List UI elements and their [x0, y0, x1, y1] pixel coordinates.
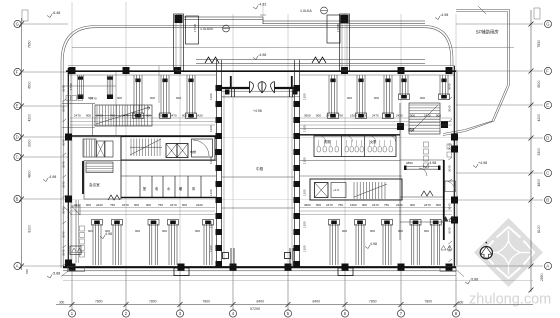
svg-text:900: 900 — [146, 114, 151, 118]
svg-text:B: B — [546, 198, 549, 203]
svg-text:3040: 3040 — [448, 143, 452, 150]
svg-text:900: 900 — [117, 96, 122, 100]
svg-text:1200: 1200 — [209, 221, 213, 228]
atrium bottom piers — [223, 248, 294, 267]
svg-text:900: 900 — [176, 96, 181, 100]
left canopy wall strip — [174, 14, 264, 71]
svg-text:4800: 4800 — [28, 170, 32, 178]
svg-text:2470: 2470 — [74, 203, 81, 207]
bottom exterior wall — [63, 267, 456, 271]
svg-text:A: A — [546, 264, 549, 269]
svg-text:-4.98: -4.98 — [428, 161, 436, 165]
svg-text:1200: 1200 — [209, 157, 213, 164]
svg-text:3040: 3040 — [448, 203, 452, 210]
core strip side texts — [209, 93, 307, 252]
svg-text:G: G — [16, 22, 19, 27]
atrium front wall with break marks — [196, 57, 425, 64]
svg-text:1.0LKA: 1.0LKA — [300, 9, 312, 13]
svg-text:D: D — [16, 135, 19, 140]
svg-text:3040: 3040 — [62, 249, 66, 256]
svg-text:F: F — [546, 69, 549, 74]
svg-text:-4.98: -4.98 — [440, 13, 448, 17]
left grid bubbles — [14, 20, 21, 269]
svg-text:2470: 2470 — [372, 114, 379, 118]
svg-text:2470: 2470 — [424, 114, 431, 118]
svg-text:4200: 4200 — [28, 114, 32, 122]
svg-text:900: 900 — [347, 96, 352, 100]
upper terrace line — [72, 47, 514, 49]
bottom-right corner detail — [440, 246, 464, 277]
main entrance doors — [222, 76, 300, 97]
site boundary right extension — [443, 6, 510, 136]
svg-text:-4.98: -4.98 — [48, 175, 56, 179]
svg-text:8100: 8100 — [28, 225, 32, 233]
interior dimension strings lower — [70, 203, 452, 233]
svg-text:900: 900 — [86, 203, 91, 207]
svg-text:900: 900 — [134, 203, 139, 207]
canopy shaft texts — [193, 24, 340, 32]
svg-text:D: D — [546, 136, 549, 141]
svg-text:3040: 3040 — [62, 105, 66, 112]
svg-text:3040: 3040 — [62, 85, 66, 92]
svg-text:7800: 7800 — [425, 300, 433, 304]
svg-text:1200: 1200 — [209, 189, 213, 196]
svg-text:900: 900 — [135, 229, 140, 233]
svg-text:900: 900 — [88, 96, 93, 100]
svg-text:3040: 3040 — [62, 231, 66, 238]
entrance porches bottom — [174, 268, 353, 276]
svg-text:F: F — [16, 70, 19, 75]
svg-text:A: A — [16, 264, 19, 269]
core left wall with columns — [216, 60, 225, 267]
svg-text:2470: 2470 — [122, 114, 129, 118]
svg-text:2420: 2420 — [396, 114, 403, 118]
svg-text:G: G — [546, 22, 549, 27]
svg-text:900: 900 — [424, 229, 429, 233]
svg-text:3040: 3040 — [448, 165, 452, 172]
svg-text:+4.98: +4.98 — [478, 161, 487, 165]
svg-text:900: 900 — [362, 114, 367, 118]
svg-text:900: 900 — [316, 203, 321, 207]
svg-text:2470: 2470 — [326, 114, 333, 118]
svg-text:750: 750 — [110, 114, 115, 118]
left wing ramp hatch — [86, 162, 113, 173]
svg-text:820: 820 — [25, 269, 29, 274]
svg-text:-5.88: -5.88 — [470, 278, 478, 282]
svg-text:900: 900 — [436, 114, 441, 118]
svg-text:2470: 2470 — [74, 114, 81, 118]
right wing upper partitions — [300, 103, 448, 136]
terrace edge below bottom wall — [62, 275, 456, 277]
svg-text:2420: 2420 — [96, 114, 103, 118]
svg-text:2470: 2470 — [372, 203, 379, 207]
svg-text:900: 900 — [420, 96, 425, 100]
svg-text:900: 900 — [410, 114, 415, 118]
svg-text:750: 750 — [338, 203, 343, 207]
svg-text:1200: 1200 — [303, 189, 307, 196]
svg-text:2420: 2420 — [396, 203, 403, 207]
svg-text:3040: 3040 — [62, 181, 66, 188]
svg-text:4500: 4500 — [537, 80, 541, 88]
svg-text:17600: 17600 — [336, 24, 340, 32]
svg-text:900: 900 — [398, 229, 403, 233]
bottom grid bubbles — [68, 310, 459, 317]
svg-text:7650: 7650 — [537, 40, 541, 48]
right wing toilet block — [300, 135, 400, 157]
elevation and room labels — [43, 3, 499, 285]
svg-text:2470: 2470 — [170, 114, 177, 118]
svg-text:2420: 2420 — [196, 114, 203, 118]
svg-text:3040: 3040 — [448, 105, 452, 112]
right wing stair — [409, 103, 440, 134]
svg-text:3040: 3040 — [62, 139, 66, 146]
svg-text:8100: 8100 — [537, 225, 541, 233]
svg-text:900: 900 — [146, 203, 151, 207]
svg-text:2470: 2470 — [170, 203, 177, 207]
svg-text:900: 900 — [374, 96, 379, 100]
left dimension texts — [28, 40, 32, 232]
svg-text:3040: 3040 — [62, 161, 66, 168]
svg-text:E: E — [546, 103, 549, 108]
svg-text:3600: 3600 — [304, 203, 311, 207]
watermark logo pinwheel — [474, 218, 543, 287]
svg-text:7800: 7800 — [203, 300, 211, 304]
svg-text:1200: 1200 — [303, 125, 307, 132]
svg-text:750: 750 — [384, 114, 389, 118]
svg-text:57290: 57290 — [250, 307, 260, 311]
svg-text:2420: 2420 — [196, 203, 203, 207]
right exterior wall — [454, 66, 457, 267]
svg-text:2470: 2470 — [424, 203, 431, 207]
left exterior wall — [68, 68, 71, 267]
svg-text:900: 900 — [195, 229, 200, 233]
svg-text:E: E — [16, 104, 19, 109]
svg-text:900: 900 — [370, 229, 375, 233]
right wing east rooms — [400, 136, 456, 240]
svg-text:会议室: 会议室 — [89, 182, 100, 187]
svg-text:7800: 7800 — [149, 300, 157, 304]
svg-text:7800: 7800 — [95, 300, 103, 304]
svg-text:1200: 1200 — [209, 93, 213, 100]
site boundary rounded outline — [61, 26, 453, 269]
svg-text:1.0L600: 1.0L600 — [200, 27, 213, 31]
svg-text:2850: 2850 — [540, 273, 544, 281]
right wing upper window stubs — [328, 75, 450, 119]
right wing lower window stubs — [329, 220, 442, 266]
right canopy wall strip — [263, 14, 425, 71]
svg-text:4.98: 4.98 — [105, 232, 112, 236]
svg-text:900: 900 — [150, 96, 155, 100]
svg-text:-5.88: -5.88 — [52, 272, 60, 276]
svg-text:2850: 2850 — [406, 161, 413, 165]
atrium interior lines — [222, 97, 294, 208]
interior dimension strings upper — [70, 96, 452, 125]
bottom dimension texts — [59, 300, 464, 311]
bottom-left corner detail — [25, 246, 85, 277]
svg-text:-4.33: -4.33 — [258, 3, 266, 7]
right grid bubbles — [544, 20, 551, 269]
svg-text:7650: 7650 — [28, 40, 32, 48]
svg-text:3300: 3300 — [537, 148, 541, 156]
svg-text:900: 900 — [362, 203, 367, 207]
svg-text:3040: 3040 — [448, 245, 452, 252]
north arrow compass — [480, 242, 492, 259]
svg-text:3600: 3600 — [304, 114, 311, 118]
left wing upper partitions — [62, 66, 159, 136]
left wall lower fixtures — [63, 200, 85, 263]
svg-text:1500: 1500 — [350, 114, 357, 118]
svg-text:1200: 1200 — [209, 245, 213, 252]
svg-text:3040: 3040 — [448, 227, 452, 234]
svg-text:2470: 2470 — [122, 203, 129, 207]
svg-text:4500: 4500 — [28, 81, 32, 89]
svg-text:1500: 1500 — [350, 203, 357, 207]
svg-text:750: 750 — [158, 203, 163, 207]
right core elevator and stair — [300, 161, 402, 201]
svg-text:3040: 3040 — [62, 207, 66, 214]
svg-text:男厕: 男厕 — [324, 139, 330, 144]
svg-text:-6.48: -6.48 — [52, 11, 60, 15]
svg-text:7800: 7800 — [369, 300, 377, 304]
row grid horizontal lines — [21, 24, 543, 266]
svg-text:电梯: 电梯 — [190, 149, 196, 154]
structural columns on exterior walls — [65, 67, 458, 271]
svg-text:4.98: 4.98 — [370, 242, 377, 246]
svg-text:1750: 1750 — [69, 83, 73, 90]
svg-text:17600: 17600 — [193, 24, 197, 32]
svg-text:900: 900 — [182, 114, 187, 118]
svg-text:zhulong.com: zhulong.com — [469, 292, 551, 308]
svg-text:1200: 1200 — [209, 125, 213, 132]
atrium top piers — [232, 87, 293, 97]
left core utility rooms — [121, 136, 216, 199]
svg-text:2470: 2470 — [326, 203, 333, 207]
column grid vertical lines — [72, 2, 456, 310]
svg-text:750: 750 — [158, 114, 163, 118]
svg-text:2420: 2420 — [96, 203, 103, 207]
left meeting room — [72, 161, 122, 216]
svg-text:300: 300 — [458, 301, 464, 305]
svg-text:C: C — [546, 171, 549, 176]
svg-text:300: 300 — [59, 301, 65, 305]
svg-text:中庭: 中庭 — [256, 166, 264, 171]
svg-text:1200: 1200 — [303, 157, 307, 164]
svg-text:3300: 3300 — [28, 139, 32, 147]
svg-text:8400: 8400 — [313, 300, 321, 304]
svg-text:900: 900 — [162, 229, 167, 233]
svg-text:750: 750 — [110, 203, 115, 207]
left core stair and elevators — [68, 136, 216, 160]
svg-text:4200: 4200 — [537, 114, 541, 122]
right dimension line — [529, 8, 545, 293]
svg-text:900: 900 — [182, 203, 187, 207]
top exterior wall — [66, 65, 456, 75]
left wing stair — [95, 105, 152, 126]
svg-text:+4.9: +4.9 — [333, 188, 339, 192]
svg-text:900: 900 — [342, 229, 347, 233]
svg-text:B: B — [16, 197, 19, 202]
left wing small stair and shafts — [83, 139, 113, 157]
svg-text:1200: 1200 — [303, 245, 307, 252]
svg-text:3040: 3040 — [448, 83, 452, 90]
core right wall with columns — [292, 60, 300, 267]
svg-text:-4.98: -4.98 — [258, 53, 266, 57]
svg-text:900: 900 — [436, 203, 441, 207]
svg-text:8400: 8400 — [257, 300, 265, 304]
svg-text:900: 900 — [88, 229, 93, 233]
svg-text:女厕: 女厕 — [370, 139, 376, 144]
left wing lower window stubs — [92, 220, 214, 266]
svg-text:900: 900 — [86, 114, 91, 118]
svg-text:750: 750 — [384, 203, 389, 207]
left dimension line — [19, 10, 28, 270]
svg-text:5F辅助用房: 5F辅助用房 — [476, 29, 499, 36]
left wing upper window stubs — [78, 75, 197, 119]
svg-text:1200: 1200 — [303, 221, 307, 228]
inner wall dimension chains — [62, 83, 453, 266]
svg-text:750: 750 — [338, 114, 343, 118]
svg-text:900: 900 — [410, 203, 415, 207]
svg-text:900: 900 — [134, 114, 139, 118]
svg-text:+4.98: +4.98 — [253, 109, 262, 113]
svg-text:1200: 1200 — [303, 93, 307, 100]
svg-text:C: C — [16, 155, 19, 160]
svg-text:900: 900 — [316, 114, 321, 118]
bottom dimension lines — [56, 271, 533, 310]
svg-text:4800: 4800 — [537, 179, 541, 187]
svg-text:楼梯: 楼梯 — [408, 127, 415, 132]
